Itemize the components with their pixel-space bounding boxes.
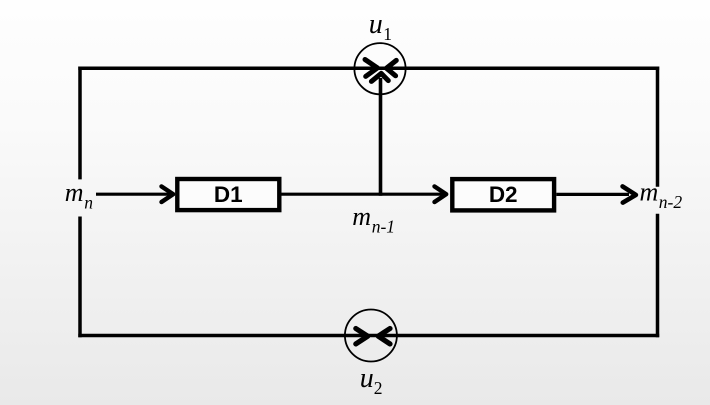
node label m_n-1: [352, 202, 395, 237]
summing junction U2 circle: [345, 310, 397, 362]
label u2: [360, 363, 383, 398]
block D2: [452, 179, 554, 210]
wire: bottom feedback line: [78, 334, 659, 338]
arrowhead into U2 from left: [356, 329, 368, 344]
svg-text:m: m: [352, 202, 371, 231]
wire: D2 to m_n-2 arrow: [556, 186, 636, 202]
summing junction U1 circle: [354, 43, 405, 94]
svg-text:m: m: [65, 178, 84, 207]
svg-text:u: u: [369, 9, 383, 40]
wire: top feedback line: [78, 66, 659, 70]
svg-text:n-2: n-2: [659, 192, 683, 212]
wire: D1 to D2 line with arrow: [282, 186, 447, 202]
arrowhead into U1 from right: [386, 60, 396, 75]
svg-text:1: 1: [383, 24, 392, 44]
wire: right vertical line upper segment: [656, 67, 660, 187]
node label m_n: [65, 178, 94, 213]
svg-text:D1: D1: [214, 182, 243, 207]
arrowhead into U1 from left: [365, 60, 378, 77]
svg-text:n: n: [84, 193, 93, 213]
wire: right vertical line lower segment: [656, 214, 660, 337]
arrowhead into U2 from right: [378, 329, 390, 344]
svg-text:n-1: n-1: [372, 217, 395, 237]
node label m_n-2: [640, 177, 683, 212]
wire: left vertical line lower segment: [78, 217, 82, 338]
label u1: [369, 9, 392, 44]
svg-text:u: u: [360, 363, 374, 394]
wire: vertical branch from m_n-1 node up to junction u1: [371, 73, 388, 195]
svg-text:m: m: [640, 177, 659, 206]
svg-text:2: 2: [374, 378, 383, 398]
block D1: [177, 179, 279, 210]
wire: left vertical line upper segment: [78, 67, 82, 180]
svg-text:D2: D2: [489, 182, 518, 207]
wire: m_n to D1 arrow: [96, 186, 173, 202]
